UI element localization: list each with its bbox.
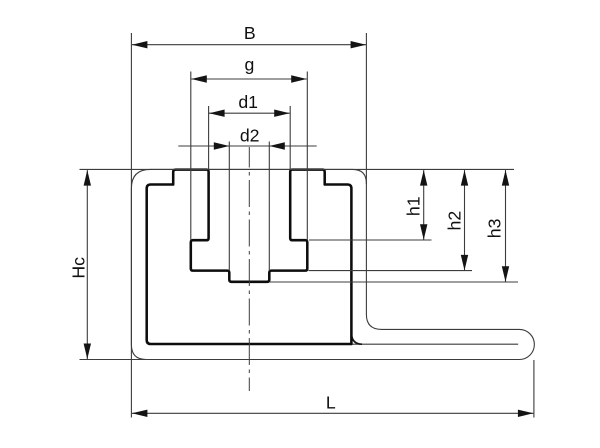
svg-text:h3: h3: [484, 218, 504, 238]
steel rail outer contour: [131, 169, 534, 359]
svg-text:g: g: [244, 55, 254, 75]
svg-text:L: L: [326, 393, 336, 413]
plastic profile contour: [147, 170, 352, 344]
extension line g right: [306, 72, 308, 241]
svg-text:d2: d2: [240, 126, 260, 146]
top reference line: [80, 168, 515, 170]
arrow h2 bottom: [461, 255, 468, 271]
arrow Hc top: [84, 170, 91, 186]
arrow B right: [351, 41, 367, 48]
dimension line L: [132, 412, 534, 414]
arrow d2 right: [269, 142, 285, 149]
arrow d1 right: [274, 110, 290, 117]
arrow L right: [518, 410, 534, 417]
dimension line B: [132, 44, 366, 46]
svg-text:h2: h2: [444, 211, 464, 231]
arrow Hc bottom: [84, 344, 91, 360]
arrow B left: [132, 41, 148, 48]
fillet plastic to foot: [351, 335, 362, 345]
arrow h3 bottom: [502, 266, 509, 282]
dimension line Hc: [86, 170, 88, 359]
extension line d1 right: [289, 106, 291, 170]
dimension line h2: [464, 170, 466, 270]
dimension line g: [191, 78, 307, 80]
extension line h1 bottom: [309, 239, 432, 241]
svg-text:h1: h1: [403, 196, 423, 216]
arrow g left: [191, 75, 207, 82]
dimension line h3: [505, 170, 507, 282]
arrow g right: [291, 75, 307, 82]
centerline: [248, 147, 250, 391]
extension line L right: [533, 360, 535, 418]
extension line d2 left: [228, 142, 230, 271]
svg-text:B: B: [244, 23, 256, 43]
arrow h2 top: [461, 170, 468, 186]
arrow h3 top: [502, 170, 509, 186]
arrow h1 top: [420, 170, 427, 186]
extension line d1 left: [208, 106, 210, 170]
dimension line d2: [178, 145, 316, 147]
arrow d1 left: [209, 110, 225, 117]
dimension line d1: [209, 112, 290, 114]
extension line h3 bottom: [270, 281, 519, 283]
steel rail foot inner line: [353, 343, 519, 345]
arrow h1 bottom: [420, 224, 427, 240]
arrow d2 left: [214, 142, 230, 149]
arrow L left: [132, 410, 148, 417]
svg-text:Hc: Hc: [68, 257, 88, 279]
dimension line h1: [423, 170, 425, 240]
bottom reference line: [80, 359, 147, 361]
extension line d2 right: [268, 142, 270, 271]
svg-text:d1: d1: [238, 92, 258, 112]
extension line h2 bottom: [309, 270, 473, 272]
extension line g left: [190, 72, 192, 241]
extension line B right: [365, 33, 367, 184]
extension line B left / L left: [130, 33, 132, 418]
